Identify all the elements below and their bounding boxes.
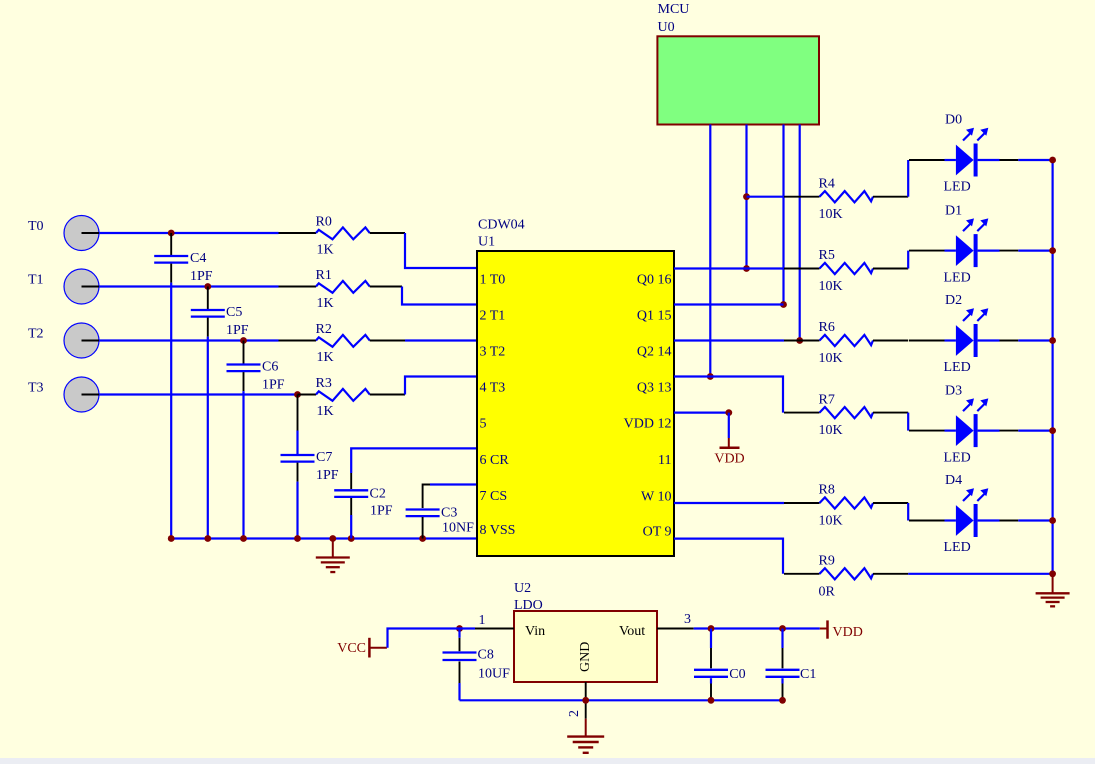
label C4: [190, 251, 213, 284]
label LED value: [944, 450, 971, 465]
wire R0 to U1 pin1: [405, 233, 477, 268]
capacitor C7: [281, 395, 315, 482]
svg-text:D1: D1: [945, 203, 962, 218]
svg-text:T3: T3: [28, 381, 44, 396]
wire MCU pin B to R4/Q0: [743, 125, 750, 272]
wire GND bus: [170, 537, 477, 539]
label D4: [945, 473, 962, 488]
capacitor C0: [694, 629, 728, 701]
label LED value: [944, 180, 971, 195]
resistor R7: [784, 407, 908, 418]
svg-text:T1: T1: [28, 273, 44, 288]
power VDD symbol: [714, 413, 744, 467]
label R6 10K: [819, 320, 843, 366]
svg-text:Vin: Vin: [525, 624, 545, 639]
svg-text:3: 3: [684, 612, 691, 627]
LED D0: [909, 128, 1050, 177]
U2 pin1 Vin: [475, 613, 514, 629]
svg-text:C4: C4: [190, 251, 206, 266]
label R2 1K: [316, 322, 334, 365]
svg-text:8 VSS: 8 VSS: [480, 523, 516, 538]
svg-text:LED: LED: [944, 180, 971, 195]
node GND bus junctions: [168, 535, 426, 542]
label U2 LDO: [514, 581, 543, 613]
svg-text:1 T0: 1 T0: [480, 272, 506, 287]
wire R7 to D3: [907, 413, 909, 431]
label LED value: [944, 360, 971, 375]
MCU U0 body: [657, 36, 819, 124]
svg-text:D4: D4: [945, 473, 962, 488]
node pin1 junction: [456, 625, 463, 632]
svg-text:0R: 0R: [819, 584, 836, 599]
resistor R4: [784, 191, 908, 202]
svg-text:3 T2: 3 T2: [480, 345, 506, 360]
svg-text:4 T3: 4 T3: [480, 381, 506, 396]
resistor R1: [279, 281, 403, 293]
svg-text:R8: R8: [819, 483, 835, 498]
touch pad T0: [64, 216, 99, 251]
svg-text:C0: C0: [729, 667, 745, 682]
svg-text:Q3 13: Q3 13: [637, 381, 672, 396]
wire Q0 net: [674, 267, 784, 269]
svg-text:1K: 1K: [317, 350, 334, 365]
LED D3: [909, 398, 1050, 447]
wire C5 to GND bus: [207, 337, 209, 539]
label C8 10UF: [478, 648, 511, 682]
svg-text:1: 1: [479, 613, 486, 628]
svg-text:T2: T2: [28, 327, 44, 342]
ground symbol left: [316, 539, 350, 573]
label D3: [945, 383, 962, 398]
ground symbol U2: [567, 719, 604, 753]
label R7 10K: [819, 392, 843, 438]
svg-text:1K: 1K: [317, 404, 334, 419]
U2 pin2 GND: [567, 682, 586, 719]
power VCC port: [337, 638, 387, 658]
svg-text:LED: LED: [944, 450, 971, 465]
svg-text:10K: 10K: [819, 351, 843, 366]
wire T0 row: [99, 232, 279, 234]
wire LED cathode bus: [1051, 160, 1053, 574]
label D1: [945, 203, 962, 218]
svg-text:2: 2: [567, 710, 582, 717]
label R8 10K: [819, 483, 843, 529]
label T0: [28, 219, 44, 234]
capacitor C1: [766, 629, 800, 701]
LED D4: [909, 488, 1050, 537]
svg-text:LED: LED: [944, 360, 971, 375]
label C2 1PF: [370, 487, 393, 519]
svg-text:W 10: W 10: [641, 490, 671, 505]
svg-text:R5: R5: [819, 248, 835, 263]
label R4 10K: [819, 176, 843, 222]
wire C4 to GND bus: [170, 283, 172, 539]
label CDW04 U1: [478, 218, 525, 250]
resistor R2: [279, 335, 406, 347]
svg-text:10K: 10K: [819, 207, 843, 222]
touch pad T1: [64, 269, 99, 304]
wire VDD pin12: [674, 409, 732, 416]
resistor R5: [784, 263, 908, 274]
svg-text:GND: GND: [578, 642, 593, 672]
wire C7 to GND bus: [296, 482, 298, 539]
wire R4 from MCU junction: [747, 196, 785, 198]
label C6: [262, 360, 285, 393]
svg-text:OT 9: OT 9: [643, 525, 672, 540]
svg-text:C8: C8: [478, 648, 494, 663]
svg-text:U2: U2: [514, 581, 531, 596]
node pin2 junction: [582, 697, 589, 704]
svg-text:C6: C6: [262, 360, 278, 375]
svg-text:VDD 12: VDD 12: [624, 417, 672, 432]
wire R8 to D4: [907, 503, 909, 521]
svg-text:C1: C1: [800, 667, 816, 682]
wire C6 to GND bus: [242, 391, 244, 538]
label C1: [800, 667, 816, 682]
capacitor C8: [443, 629, 477, 701]
svg-text:LED: LED: [944, 540, 971, 555]
svg-text:R4: R4: [819, 176, 835, 191]
svg-text:5: 5: [480, 417, 487, 432]
svg-text:R1: R1: [316, 268, 332, 283]
svg-text:R7: R7: [819, 392, 835, 407]
LDO U2 body: [514, 611, 657, 682]
label D2: [945, 293, 962, 308]
power VDD port right: [820, 620, 863, 640]
svg-text:1PF: 1PF: [262, 378, 285, 393]
wire MCU pin C to Q1: [780, 125, 787, 308]
wire R2 to U1 pin3: [405, 339, 477, 341]
svg-text:1PF: 1PF: [316, 468, 339, 483]
label LED value: [944, 540, 971, 555]
capacitor C4: [154, 233, 188, 283]
svg-text:7 CS: 7 CS: [480, 489, 508, 504]
node T2 junction: [240, 337, 247, 344]
svg-text:1PF: 1PF: [190, 269, 213, 284]
svg-text:2 T1: 2 T1: [480, 309, 506, 324]
svg-text:R2: R2: [316, 322, 332, 337]
wire OT pin9: [674, 539, 783, 574]
U1 right pin labels 9-16: [624, 272, 672, 539]
label C5: [226, 305, 249, 338]
svg-text:6 CR: 6 CR: [480, 453, 510, 468]
svg-text:1K: 1K: [317, 243, 334, 258]
label GND rotated: [578, 642, 593, 672]
wire Vout to VDD: [694, 625, 820, 632]
resistor R8: [784, 497, 908, 508]
svg-text:C5: C5: [226, 305, 242, 320]
svg-text:10K: 10K: [819, 514, 843, 529]
resistor R6: [784, 335, 908, 346]
wire U1 pin8 VSS: [476, 538, 478, 540]
resistor R0: [279, 227, 406, 239]
svg-text:U1: U1: [478, 235, 495, 250]
label R1 1K: [316, 268, 334, 311]
svg-text:R9: R9: [819, 554, 835, 569]
wire VCC to pin1: [388, 629, 476, 648]
svg-text:R6: R6: [819, 320, 835, 335]
svg-text:C3: C3: [441, 506, 457, 521]
svg-text:10K: 10K: [819, 279, 843, 294]
node bus junctions right: [1049, 157, 1056, 578]
U2 pin3 Vout: [657, 612, 694, 629]
label T2: [28, 327, 44, 342]
wire U1 pin7 CS to C3: [423, 485, 477, 509]
node T1 junction: [204, 283, 211, 290]
touch pad T2: [64, 323, 99, 358]
wire R3 to U1 pin4: [405, 377, 477, 395]
wire R5 to D1: [907, 251, 909, 269]
svg-text:11: 11: [658, 453, 671, 468]
capacitor C2: [334, 473, 368, 539]
svg-text:R3: R3: [316, 376, 332, 391]
svg-text:10K: 10K: [819, 423, 843, 438]
svg-text:T0: T0: [28, 219, 44, 234]
svg-text:LED: LED: [944, 270, 971, 285]
wire Q1 net: [674, 303, 784, 305]
wire T3 row: [99, 393, 298, 395]
label LED value: [944, 270, 971, 285]
svg-text:Q2 14: Q2 14: [637, 345, 672, 360]
svg-text:CDW04: CDW04: [478, 218, 525, 233]
wire U1 pin6 CR to C2: [351, 448, 477, 473]
label R5 10K: [819, 248, 843, 294]
svg-text:U0: U0: [658, 20, 675, 35]
wire bottom bus U2: [460, 699, 783, 701]
svg-text:1K: 1K: [317, 296, 334, 311]
label R0 1K: [316, 215, 334, 258]
capacitor C3: [406, 510, 440, 539]
svg-text:VCC: VCC: [337, 641, 366, 656]
svg-text:10UF: 10UF: [478, 667, 510, 682]
wire MCU pin D to Q2: [796, 125, 803, 344]
resistor R9: [784, 568, 908, 579]
svg-text:LDO: LDO: [514, 598, 543, 613]
svg-text:C2: C2: [370, 487, 386, 502]
svg-text:Q0 16: Q0 16: [637, 272, 672, 287]
svg-text:D0: D0: [945, 113, 962, 128]
label T1: [28, 273, 44, 288]
label Vout: [619, 624, 645, 639]
label T3: [28, 381, 44, 396]
touch pad T3: [64, 377, 99, 412]
resistor R3: [298, 389, 406, 401]
svg-text:D2: D2: [945, 293, 962, 308]
label C7: [316, 450, 339, 483]
LED D1: [909, 218, 1050, 267]
node T0 junction: [168, 230, 175, 237]
label Vin: [525, 624, 545, 639]
node T3 junction: [294, 391, 301, 398]
wire R4 to D0: [907, 160, 909, 197]
svg-text:VDD: VDD: [833, 625, 863, 640]
svg-text:1PF: 1PF: [370, 504, 393, 519]
IC U1 CDW04 body: [477, 251, 674, 556]
svg-text:C7: C7: [316, 450, 332, 465]
svg-text:Vout: Vout: [619, 624, 645, 639]
wire MCU pin A to Q3: [707, 125, 714, 380]
label C3 10NF: [441, 506, 474, 536]
svg-text:R0: R0: [316, 215, 332, 230]
wire R9 to bus: [908, 573, 1052, 575]
wire R1 to U1 pin2: [402, 287, 477, 305]
U1 left pin labels 1-8: [480, 272, 516, 538]
svg-text:VDD: VDD: [714, 452, 744, 467]
capacitor C6: [227, 341, 261, 392]
svg-text:10NF: 10NF: [442, 521, 474, 536]
wire T2 row: [99, 339, 279, 341]
wire Q2 net: [674, 339, 784, 341]
svg-text:D3: D3: [945, 383, 962, 398]
ground symbol right: [1036, 574, 1070, 607]
wire W pin10: [674, 502, 784, 504]
svg-text:MCU: MCU: [658, 2, 690, 17]
label R9 0R: [819, 554, 836, 600]
capacitor C5: [191, 287, 225, 337]
label C0: [729, 667, 745, 682]
wire Q3 net: [674, 377, 783, 413]
LED D2: [909, 308, 1050, 357]
svg-text:Q1 15: Q1 15: [637, 309, 672, 324]
svg-text:1PF: 1PF: [226, 323, 249, 338]
label D0: [945, 113, 962, 128]
label R3 1K: [316, 376, 334, 419]
wire T1 row: [99, 285, 279, 287]
node bottom bus junctions: [708, 697, 786, 704]
label MCU U0: [658, 2, 690, 35]
